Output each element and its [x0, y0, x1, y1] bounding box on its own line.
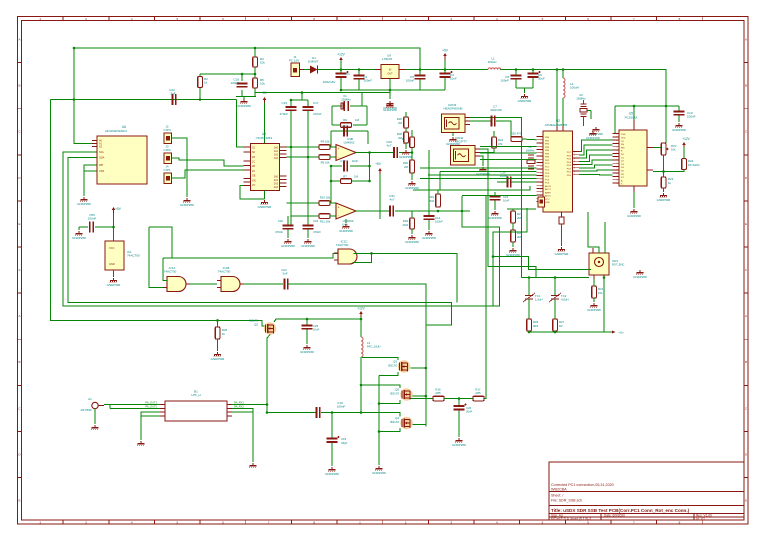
svg-text:VSS: VSS: [621, 134, 626, 136]
svg-text:B: B: [745, 84, 747, 88]
ground C8 C9: [518, 94, 532, 103]
svg-text:3R4: 3R4: [533, 324, 539, 328]
junction IC1C: [370, 252, 373, 255]
power +5V opamp: [375, 162, 382, 175]
ground antenna: [92, 425, 99, 430]
wire C30 line: [497, 181, 537, 183]
wire PA gate bus x379: [378, 376, 380, 465]
resistor R21: [511, 211, 523, 223]
svg-text:2M: 2M: [404, 165, 409, 169]
svg-text:1A3: 1A3: [274, 157, 279, 160]
junction fb: [330, 165, 371, 183]
svg-text:GNDPWR: GNDPWR: [672, 128, 686, 132]
svg-text:16MHz: 16MHz: [526, 149, 535, 153]
svg-text:GNDPWR: GNDPWR: [555, 252, 569, 256]
wire row 178: [420, 177, 537, 179]
wire C1 stubs: [340, 60, 342, 90]
svg-text:10nF: 10nF: [503, 199, 510, 203]
svg-text:L78L05: L78L05: [382, 57, 392, 61]
wire U5 top pin: [633, 106, 635, 130]
capacitor C55: [88, 213, 97, 233]
capacitor C2: [354, 75, 373, 83]
power +5V JP1: [112, 207, 122, 214]
svg-text:R6 10k: R6 10k: [321, 161, 330, 165]
wire R17 to x486: [484, 196, 486, 399]
wire Q5 drain: [413, 395, 426, 397]
svg-text:16MHz: 16MHz: [576, 97, 586, 101]
capacitor C14: [424, 216, 444, 224]
wire R20 top: [411, 130, 413, 137]
capacitor C24: [303, 219, 322, 234]
capacitor C10: [674, 111, 696, 119]
svg-text:SW1: SW1: [612, 259, 619, 263]
wire R26b stubs: [217, 320, 219, 351]
svg-text:GNDPWR: GNDPWR: [372, 471, 386, 475]
ground U5: [627, 209, 641, 218]
wire C14 stubs: [428, 202, 430, 230]
svg-text:VCC: VCC: [545, 199, 550, 201]
wire top y93 rail: [255, 92, 390, 94]
wire J3 net: [172, 158, 244, 166]
capacitor C26: [454, 404, 473, 414]
capacitor C8: [500, 75, 521, 83]
svg-text:+12V: +12V: [357, 307, 365, 311]
resistor R19: [429, 194, 441, 207]
wire mic pin2: [480, 152, 486, 154]
svg-text:GND: GND: [545, 202, 550, 204]
wire Q5 lower gate: [379, 400, 400, 404]
wire CON3 top: [470, 118, 522, 278]
potentiometer RV2: [661, 143, 677, 155]
svg-text:GNDPWR: GNDPWR: [405, 240, 419, 244]
transistor Q2: [249, 319, 276, 335]
svg-text:74ACT00: 74ACT00: [336, 243, 349, 247]
wire U4B out: [356, 152, 394, 154]
wire Q4 gate line: [362, 413, 400, 417]
wire top rail net-48: [74, 48, 420, 70]
svg-text:C15: C15: [281, 101, 287, 105]
wire gate2-cap: [244, 283, 283, 285]
svg-text:GNDPWR: GNDPWR: [77, 202, 91, 206]
wire filter right out: [232, 404, 267, 406]
wire +12V rail: [318, 69, 376, 71]
ground C26: [452, 438, 466, 447]
capacitor C31 series: [389, 194, 395, 217]
junction C8 C9: [515, 68, 565, 71]
transistor Q4: [390, 416, 412, 429]
svg-text:4,8uH: 4,8uH: [561, 298, 568, 302]
svg-text:100nF: 100nF: [435, 220, 443, 224]
svg-text:A: A: [18, 314, 20, 318]
wire +5V to JP1: [113, 213, 115, 241]
svg-text:+: +: [337, 147, 339, 151]
transistor Q5: [390, 388, 412, 401]
ground R28: [506, 248, 520, 257]
resistor R3: [253, 57, 266, 67]
rotary encoder SW1: [584, 248, 625, 279]
wire J4 net: [172, 170, 244, 178]
svg-text:33pF: 33pF: [341, 441, 348, 445]
resistor R24: [492, 137, 504, 148]
svg-text:GNDPWR: GNDPWR: [301, 244, 315, 248]
gate IC1B: [217, 266, 244, 292]
capacitor C23: [490, 195, 510, 203]
svg-text:2M: 2M: [517, 235, 522, 239]
junction y106: [633, 105, 668, 108]
wire x236 drop to U8: [237, 100, 244, 148]
ground U6: [77, 197, 91, 206]
junction R3 node: [199, 47, 257, 101]
svg-text:25MHz: 25MHz: [341, 98, 351, 102]
wire U5 gnd: [633, 192, 635, 208]
svg-text:GNDPWR: GNDPWR: [587, 308, 601, 312]
ground R26b: [211, 352, 225, 361]
wire AVCC drop: [556, 70, 558, 132]
svg-text:C1: C1: [346, 72, 350, 76]
junction U8 out: [290, 146, 310, 159]
crystal X1: [341, 94, 351, 111]
svg-text:GNDPWR: GNDPWR: [339, 229, 353, 233]
wire enc c: [604, 222, 606, 253]
svg-text:47k: 47k: [498, 142, 503, 146]
wire R29 stubs: [411, 211, 413, 234]
svg-text:A1: A1: [88, 397, 92, 401]
svg-text:10uF: 10uF: [450, 77, 457, 81]
wire ant to filter: [104, 404, 160, 406]
wire U8 wrap gnd: [240, 186, 265, 200]
wire mcu gnd: [561, 224, 563, 246]
svg-text:VCC: VCC: [109, 246, 115, 250]
svg-text:RFC_10UH: RFC_10UH: [367, 345, 381, 349]
wire C15 stubs: [290, 100, 292, 118]
filter module B1 LPF: [145, 390, 244, 422]
wire left bus drop x50: [51, 100, 265, 327]
power +12V: [337, 53, 345, 65]
svg-text:1R=3(2W): 1R=3(2W): [688, 164, 700, 167]
gate IC1A: [163, 266, 190, 292]
svg-text:SCL: SCL: [99, 150, 105, 154]
svg-text:2C: 2C: [252, 170, 255, 173]
wire C22b stubs: [287, 216, 289, 238]
svg-text:1,8uH: 1,8uH: [535, 298, 542, 302]
capacitor C4: [440, 71, 458, 81]
svg-text:20nF: 20nF: [466, 410, 473, 414]
svg-text:100nF: 100nF: [230, 81, 239, 85]
resistor R4: [319, 140, 330, 150]
ground X3: [589, 127, 603, 136]
wire R22 to row: [653, 170, 684, 172]
svg-text:OUT: OUT: [387, 73, 393, 76]
svg-text:B: B: [18, 84, 20, 88]
ic IC1 power unit: [105, 241, 140, 277]
power +5V main: [442, 49, 449, 61]
wire Q3 lower gate: [379, 372, 398, 376]
connector J2: [163, 125, 171, 144]
svg-text:10nF: 10nF: [313, 328, 320, 332]
wire TC2 to R: [554, 299, 556, 319]
wire C17 col: [307, 118, 309, 226]
wire row 175: [428, 174, 537, 176]
svg-text:CJP2: CJP2: [163, 148, 171, 152]
wire R16 to R17: [444, 398, 473, 400]
ground PA bus: [372, 466, 386, 475]
svg-text:ANT/50R: ANT/50R: [80, 408, 91, 412]
svg-text:WB2CBA: WB2CBA: [551, 488, 567, 492]
svg-text:Corrected PC1 connection,05,31: Corrected PC1 connection,05,31,2020: [551, 483, 614, 487]
svg-text:GNDPWR: GNDPWR: [383, 108, 397, 112]
ground U4A: [339, 219, 353, 233]
wire +5V opamp col: [379, 174, 381, 219]
wire C55 links: [79, 227, 114, 230]
trimmer TC1: [523, 293, 542, 302]
svg-text:1N4007: 1N4007: [308, 60, 319, 64]
resistor below TC1: [527, 319, 539, 331]
wire row 146: [480, 145, 537, 147]
ground filter right: [250, 463, 257, 468]
svg-text:PC 12V: PC 12V: [289, 59, 299, 63]
ground CON2: [476, 167, 490, 176]
capacitor C18: [327, 436, 348, 445]
svg-text:100nF: 100nF: [364, 79, 373, 83]
svg-text:1k: 1k: [204, 81, 208, 85]
wire C25 stubs: [306, 319, 308, 344]
svg-text:+5V: +5V: [115, 207, 122, 211]
capacitor C9: [528, 71, 546, 81]
wire C10 stubs: [678, 106, 680, 122]
wire enc feed row: [522, 277, 590, 279]
svg-text:GNDPWR: GNDPWR: [627, 214, 641, 218]
svg-text:2R5: 2R5: [475, 391, 481, 395]
ground C10: [672, 123, 686, 132]
wire L2 column: [562, 70, 564, 132]
transistor Q3: [388, 360, 410, 373]
svg-text:+5v: +5v: [619, 331, 624, 335]
power +5V U8: [261, 91, 268, 104]
wire enc to +5: [603, 279, 605, 332]
wire U8 to R4: [287, 146, 320, 148]
ground R29: [405, 235, 419, 244]
junction enc snake: [492, 255, 495, 258]
resistor R11: [319, 214, 331, 224]
svg-text:1M: 1M: [355, 118, 360, 122]
connector J3: [163, 145, 171, 164]
wire R20-R30: [411, 148, 413, 161]
wire left bus x63 to U6: [63, 152, 499, 306]
resistor R17: [473, 388, 484, 401]
wire to R10: [287, 202, 320, 204]
wire gnd tie y90: [341, 89, 445, 91]
resistor R5: [253, 78, 266, 88]
wire x513 top: [512, 209, 514, 211]
power +12V PA: [357, 307, 365, 319]
svg-text:R25 470: R25 470: [511, 132, 522, 136]
ground C22b: [281, 239, 295, 248]
ground near C16: [237, 99, 251, 108]
wire U8 bottom pin: [264, 191, 266, 200]
wire C17 stubs: [302, 100, 308, 118]
wire TC2 col: [554, 278, 556, 296]
resistor R22: [682, 159, 700, 170]
svg-text:A: A: [745, 38, 747, 42]
op-amp U4B: [336, 137, 356, 161]
wire C24 stubs: [307, 216, 309, 238]
wire row 171: [440, 170, 537, 172]
wire R4 to opamp: [330, 146, 336, 148]
svg-text:GNDPWR: GNDPWR: [586, 136, 600, 140]
wire +5 feed row: [529, 331, 604, 333]
wire left vertical from top rail: [74, 48, 97, 144]
ground R30b: [399, 150, 413, 159]
resistor R30b: [397, 132, 408, 143]
diode D1: [308, 56, 319, 74]
svg-text:GNDPWR: GNDPWR: [258, 205, 272, 209]
svg-text:File: SDR_SSB.sch: File: SDR_SSB.sch: [551, 499, 582, 503]
ic U8 mux 74CBT3253: [244, 132, 287, 190]
connector J4: [163, 165, 171, 184]
svg-text:SDA: SDA: [99, 156, 105, 160]
svg-text:10k: 10k: [260, 82, 265, 86]
resistor R16: [433, 388, 444, 401]
wire gate1-gate2: [190, 283, 217, 285]
svg-text:1C: 1C: [252, 161, 255, 164]
svg-text:ROT_ENC: ROT_ENC: [612, 263, 625, 267]
svg-text:GN: GN: [252, 179, 256, 182]
connector JP2 isp: [538, 197, 545, 207]
svg-text:2M4: 2M4: [403, 223, 409, 227]
svg-text:BS170: BS170: [390, 420, 399, 424]
wire col x429: [428, 150, 430, 202]
svg-text:10k: 10k: [598, 291, 603, 295]
junction PA gate node: [266, 384, 363, 414]
svg-text:CJP3: CJP3: [163, 128, 171, 132]
connector J1 PC12V: [289, 55, 307, 77]
svg-text:C12: C12: [340, 124, 346, 128]
capacitor C17: [303, 101, 322, 116]
wire U5 left drop: [615, 106, 619, 134]
svg-text:30uF/3D: 30uF/3D: [490, 108, 502, 112]
ic U2 ATMEGA328: [537, 119, 580, 217]
wire Q2 drain: [274, 319, 361, 322]
svg-text:100u/16V: 100u/16V: [323, 80, 336, 84]
wire C7 out: [496, 121, 511, 139]
ground J2: [180, 198, 194, 207]
resistor R30: [403, 160, 414, 173]
ground enc right: [633, 270, 647, 279]
svg-text:MIC/PTT: MIC/PTT: [455, 139, 467, 143]
svg-text:GNDPWR: GNDPWR: [405, 186, 419, 190]
wire C18 stubs: [331, 413, 333, 467]
ground mcu bottom: [555, 247, 569, 256]
wire bus mcu to display: [579, 140, 613, 175]
svg-text:1R: 1R: [559, 324, 563, 328]
wire C23 stubs: [494, 192, 496, 210]
wire Q5 source to R16: [411, 398, 434, 400]
wire CON3 gnd stub: [452, 133, 454, 137]
junction C19: [331, 411, 334, 414]
ground R30: [405, 181, 419, 190]
svg-text:1M: 1M: [354, 175, 359, 179]
wire to C19: [267, 412, 316, 414]
wire mic gnd: [480, 156, 483, 166]
svg-text:C13: C13: [340, 159, 346, 163]
wire TC1 to R: [528, 299, 530, 319]
capacitor C30 series: [500, 171, 511, 188]
svg-text:B: B: [745, 360, 747, 364]
svg-text:3nF: 3nF: [282, 272, 287, 276]
svg-text:L3: L3: [367, 341, 371, 345]
svg-text:LM4562: LM4562: [344, 141, 355, 145]
svg-text:470nF: 470nF: [313, 230, 321, 234]
wire y106 feed: [615, 105, 679, 107]
junction filter out: [266, 403, 269, 406]
wire row 152: [480, 152, 537, 154]
ic U5 LCD PC1602A: [613, 112, 654, 193]
wire R19 top: [437, 190, 439, 194]
wire C5 stubs: [419, 70, 421, 91]
svg-text:WP: WP: [99, 163, 103, 167]
svg-text:GNDPWR: GNDPWR: [72, 236, 86, 240]
wire fb loop2: [331, 153, 370, 204]
svg-text:GNDPWR: GNDPWR: [399, 155, 413, 159]
wire Q3 drain: [411, 367, 426, 369]
wire to R11: [291, 215, 319, 217]
svg-text:+: +: [337, 206, 339, 210]
svg-text:GND: GND: [109, 262, 115, 266]
junction R19 node: [437, 210, 464, 213]
wire R3/R5 node: [200, 48, 256, 100]
svg-text:Q2: Q2: [254, 323, 258, 327]
svg-text:HEADPHONE: HEADPHONE: [443, 106, 462, 110]
connector CON2 mic: [451, 136, 481, 165]
capacitor C25: [302, 324, 320, 332]
wire X1 loop: [332, 93, 367, 125]
svg-text:470nF: 470nF: [279, 112, 288, 116]
mcu bottom component: [559, 217, 564, 224]
svg-text:24C064FWdW.2: 24C064FWdW.2: [105, 129, 127, 133]
wire Q3 gate line: [362, 357, 398, 360]
svg-text:Title: uSDX SDR SSB Test PCB: Title: uSDX SDR SSB Test PCB(Corr.PC1 Co…: [551, 508, 690, 513]
svg-text:100uH: 100uH: [488, 60, 497, 64]
ground mcu right: [586, 131, 600, 140]
svg-text:GNDPWR: GNDPWR: [657, 198, 671, 202]
wire left bus x68 to U6: [68, 158, 452, 326]
svg-text:GNDPWR: GNDPWR: [211, 357, 225, 361]
resistor R28: [511, 230, 523, 242]
ground R23: [657, 193, 671, 202]
resistor R10: [319, 196, 331, 206]
svg-text:E: E: [18, 222, 20, 226]
svg-text:2M: 2M: [398, 136, 403, 140]
svg-text:R10 10k: R10 10k: [320, 196, 331, 200]
wire C2 stubs: [358, 70, 360, 91]
ground CON3: [446, 137, 460, 146]
svg-text:R4 10k: R4 10k: [321, 140, 330, 144]
ground U9: [383, 101, 397, 110]
svg-text:A: A: [18, 38, 20, 42]
wire row 190: [413, 186, 530, 190]
ground U8: [258, 200, 272, 209]
svg-text:2A3: 2A3: [274, 186, 279, 189]
svg-text:100nF: 100nF: [337, 405, 346, 409]
svg-text:RS: RS: [621, 144, 625, 146]
wire diode input: [304, 69, 310, 71]
resistor R25: [511, 132, 522, 142]
wire ant gnd: [94, 409, 96, 424]
svg-text:VDD: VDD: [621, 138, 626, 140]
junction R16 line: [425, 367, 461, 400]
capacitor C22b: [275, 219, 293, 234]
svg-text:2R5: 2R5: [435, 391, 441, 395]
